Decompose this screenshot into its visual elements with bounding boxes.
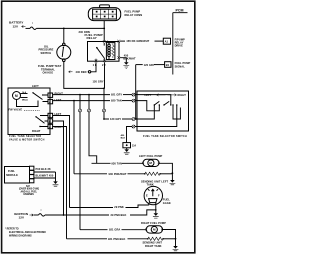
connector: fuel pump relay connector: [88, 5, 142, 21]
svg-text:12V: 12V: [19, 215, 25, 219]
selector valve internal wire: [17, 100, 39, 107]
svg-text:B1: B1: [166, 63, 170, 67]
svg-text:SIGNAL: SIGNAL: [175, 64, 186, 68]
wire W1 right-tank select (valve pin F to selector switch): [53, 93, 137, 97]
pin right top (coil feed): [117, 40, 120, 43]
svg-text:RIGHT FUEL PUMP: RIGHT FUEL PUMP: [141, 221, 166, 225]
svg-text:WIRING DIAGRAMS: WIRING DIAGRAMS: [9, 234, 32, 237]
pin right bottom (coil ground): [117, 56, 120, 59]
wire valve pin A2 to 921 GRA drop: [53, 127, 67, 239]
svg-text:DRIVE: DRIVE: [175, 44, 184, 48]
svg-text:ON HSG: ON HSG: [43, 71, 54, 75]
wire sender return from selector switch to splice: [127, 127, 138, 143]
svg-text:920 TAN: 920 TAN: [111, 99, 122, 103]
wire BLK/WHT 450 (module ground): [34, 172, 56, 181]
wire 29 PNK/BLK to gage: [64, 210, 156, 217]
svg-text:120 GRY: 120 GRY: [144, 63, 155, 67]
right fuel pump: [141, 221, 166, 233]
svg-text:114: 114: [132, 144, 137, 147]
wire relay output 120 GRY down: [93, 62, 105, 119]
wire left pump to ground: [159, 163, 172, 173]
svg-text:930 PNK/WHT: 930 PNK/WHT: [109, 172, 127, 176]
svg-text:P90 BLK 28: P90 BLK 28: [36, 167, 52, 171]
svg-text:GAGE: GAGE: [163, 201, 171, 205]
svg-text:MODULE: MODULE: [6, 173, 18, 177]
svg-text:C: C: [49, 115, 51, 118]
wire right pump to ground: [163, 230, 176, 239]
PCM pin A1 (fuel pump relay drive): [163, 38, 185, 48]
svg-text:E: E: [146, 193, 148, 197]
svg-text:921 GRA: 921 GRA: [109, 228, 120, 232]
svg-text:VALVE & MOTOR SWITCH: VALVE & MOTOR SWITCH: [9, 138, 45, 141]
motor M (selector valve): [13, 92, 21, 100]
footnote: [5, 228, 46, 238]
svg-text:AND ALL FUEL: AND ALL FUEL: [21, 190, 38, 193]
wire 120 GRY to selector switch: [103, 117, 137, 121]
wire drop W1 to ignition node: [79, 95, 81, 230]
node IGNITION 12V: [14, 212, 34, 220]
relay resistor (parallel with coil): [112, 43, 115, 58]
ground (fuel module): [53, 181, 59, 186]
sending unit right tank (resistor): [143, 237, 176, 248]
oil pressure switch: [39, 28, 71, 61]
node junction connector/relay: [103, 28, 105, 30]
wire 921 GRA to right fuel pump: [80, 228, 146, 232]
wire 465 DK GRN/WHT relay to PCM: [120, 39, 163, 43]
svg-text:29 PNK/BLK: 29 PNK/BLK: [111, 213, 127, 217]
node junction battery/oil switch: [63, 28, 65, 30]
svg-text:*: *: [32, 22, 33, 26]
ground (gage): [153, 205, 159, 218]
svg-text:921 PNK/BLK: 921 PNK/BLK: [108, 237, 126, 241]
selector valve lower switch: [32, 116, 48, 134]
ground (relay coil): [123, 62, 129, 68]
connector symbols at selector switch: [132, 93, 135, 128]
svg-text:MELA: MELA: [22, 98, 28, 101]
svg-text:SWITCH: SWITCH: [41, 51, 52, 55]
sending unit left tank (resistor): [141, 172, 172, 186]
node junction left pump/sender ground: [172, 172, 174, 174]
svg-text:A1: A1: [165, 40, 169, 44]
svg-text:930 TAN: 930 TAN: [111, 162, 122, 166]
svg-text:RIGHT: RIGHT: [178, 93, 187, 97]
PCM: [173, 9, 188, 75]
ground (right tank): [173, 239, 179, 251]
selector valve upper switch: [21, 91, 49, 102]
splice S114 (ground splice): [121, 134, 137, 149]
connector symbols C400 (inline): [79, 109, 106, 112]
fuel tank selector switch box: [137, 91, 189, 138]
note: V.I.N. engines: [19, 186, 39, 196]
svg-text:120 GRY: 120 GRY: [110, 117, 121, 121]
PCM pin B1 (fuel pump signal): [165, 61, 191, 68]
svg-text:FUEL: FUEL: [8, 169, 15, 173]
pin bottom 2: [103, 60, 106, 63]
wire W2 left-tank select (valve pin A to selector switch): [53, 100, 110, 102]
pin A (top): [103, 40, 106, 43]
left fuel pump: [139, 154, 162, 166]
wire ignition to gage node: [45, 214, 64, 216]
wire oil pressure switch to 120 GRY junction: [64, 62, 104, 89]
node junction ignition / 29 PNK/BLK: [63, 214, 65, 216]
svg-text:LEFT: LEFT: [145, 93, 152, 97]
relay coil: [108, 43, 111, 60]
svg-text:BLK: BLK: [121, 138, 126, 140]
wire 930 PNK/WHT to left sending unit: [74, 172, 145, 176]
svg-text:RIGHT TANK: RIGHT TANK: [145, 244, 162, 248]
wire 921 PNK/BLK to right sending unit: [67, 237, 148, 241]
svg-text:BLK/WHT 450: BLK/WHT 450: [36, 173, 54, 177]
wire 120 GRY to PCM (fuel pump signal): [136, 63, 165, 119]
wire 450 BLK/WHT relay coil to ground: [120, 53, 136, 62]
svg-text:120 GRY: 120 GRY: [93, 80, 104, 84]
svg-text:29 PNK: 29 PNK: [114, 205, 124, 209]
svg-text:SENDING UNIT LEFT: SENDING UNIT LEFT: [141, 179, 168, 183]
svg-text:PCM: PCM: [176, 9, 184, 13]
pin F (valve, to right tank wire): [48, 92, 63, 98]
pin A2 (valve lower): [48, 124, 63, 129]
wire battery 12V to relay (340 ORN): [36, 28, 104, 33]
ground (left tank): [170, 173, 176, 185]
svg-text:[OVER 8500 GVW]: [OVER 8500 GVW]: [19, 189, 39, 191]
svg-text:921 GRY: 921 GRY: [111, 93, 122, 97]
svg-text:*: *: [41, 208, 42, 212]
svg-text:RELAY: RELAY: [87, 36, 97, 40]
svg-text:BLK/WHT: BLK/WHT: [123, 56, 136, 60]
wire valve pin B to 29 PNK drop: [53, 121, 64, 215]
fuel gage: [144, 186, 171, 205]
relay switch contact: [103, 43, 105, 46]
svg-text:FUEL TANK SELECTOR SWITCH: FUEL TANK SELECTOR SWITCH: [143, 135, 187, 138]
svg-text:FUEL PUMP: FUEL PUMP: [175, 61, 191, 65]
fuse F1 (battery feed): [26, 22, 37, 30]
svg-text:SENDING UNIT: SENDING UNIT: [143, 240, 163, 244]
F/W valve (mechanical link): [9, 101, 41, 112]
svg-text:RIGHT: RIGHT: [32, 129, 41, 133]
svg-text:N.P.: N.P.: [26, 186, 31, 188]
wire 29 PNK to gage: [70, 205, 149, 209]
pin B (valve lower): [48, 119, 53, 124]
relay K1: fuel pump relay: [85, 33, 121, 67]
wire P90 BLK 28 (module ground): [34, 167, 56, 172]
svg-text:12V: 12V: [13, 24, 19, 28]
svg-text:ENGINES: ENGINES: [24, 194, 35, 196]
svg-text:B: B: [49, 120, 51, 123]
svg-text:FUEL PUMP: FUEL PUMP: [125, 10, 141, 14]
fuse F2 (ignition feed): [34, 208, 45, 216]
wire 930 TAN to left fuel pump: [92, 162, 144, 166]
svg-text:FW VALVE: FW VALVE: [9, 108, 23, 112]
ground (splice): [124, 149, 130, 154]
svg-text:465 DK GRN/WHT: 465 DK GRN/WHT: [126, 39, 149, 43]
svg-text:LEFT FUEL PUMP: LEFT FUEL PUMP: [139, 154, 162, 158]
wire connector to relay pin A: [103, 21, 105, 42]
svg-text:RIGHT: RIGHT: [55, 125, 64, 129]
svg-text:A: A: [49, 101, 51, 104]
pin C (valve lower): [48, 112, 62, 118]
node BATTERY 12V: [9, 21, 26, 29]
fuel pump test terminal: [38, 62, 96, 74]
wire drop W1 to 930 PNK/WHT: [89, 95, 97, 164]
svg-text:RELAY CONN: RELAY CONN: [125, 13, 143, 17]
selector switch internal wiring: [137, 95, 180, 127]
relay coil box: [106, 43, 115, 60]
wire valve pin C to 930 TAN drop: [53, 116, 70, 208]
svg-text:M: M: [15, 94, 18, 98]
svg-text:A: A: [49, 126, 51, 129]
pin bottom 1: [95, 60, 98, 63]
fuel module box: [5, 166, 34, 183]
svg-text:LEFT: LEFT: [55, 98, 62, 102]
pin A (valve, to left tank wire): [48, 98, 62, 104]
node junction right pump/sender: [175, 238, 177, 240]
svg-text:440 RED: 440 RED: [76, 70, 87, 74]
fuel tank selector valve & motor switch box: [8, 84, 50, 141]
